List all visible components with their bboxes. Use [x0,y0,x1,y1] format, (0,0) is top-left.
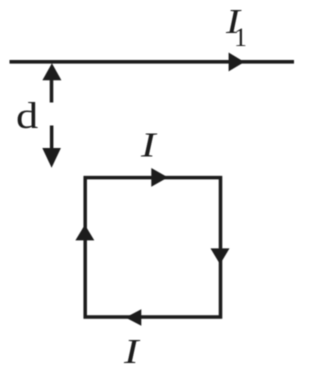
svg-text:I: I [140,126,158,165]
svg-text:I: I [123,332,141,370]
svg-text:d: d [16,96,38,137]
svg-text:1: 1 [234,23,247,52]
